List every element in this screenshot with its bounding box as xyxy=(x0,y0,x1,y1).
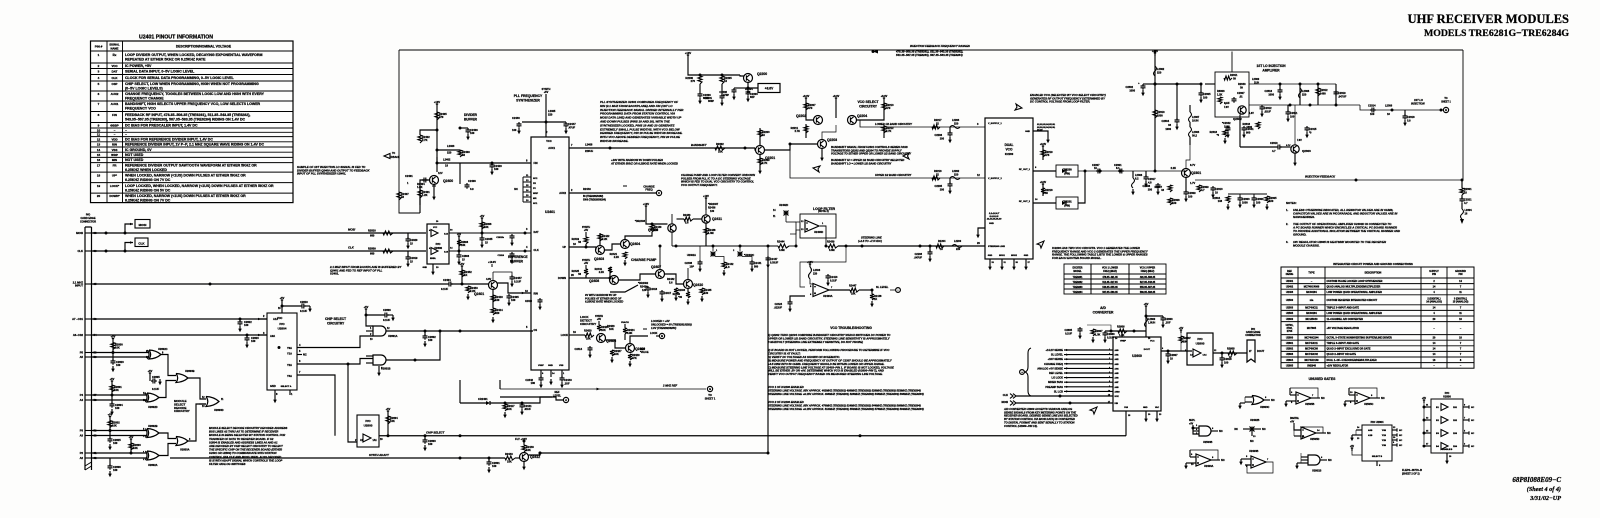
svg-text:MODULE CHASSIS.: MODULE CHASSIS. xyxy=(1293,244,1320,248)
svg-text:1000: 1000 xyxy=(1129,89,1135,93)
resistor R2810 xyxy=(383,231,393,235)
resistor R2213 xyxy=(882,103,886,110)
svg-text:MODELS TRE6281G−TRE6284G: MODELS TRE6281G−TRE6284G xyxy=(1424,28,1569,39)
transistor Q2302 xyxy=(1238,106,1246,114)
svg-text:DC BIAS FOR REFERENCE DIVIDER: DC BIAS FOR REFERENCE DIVIDER INPUT, 1.4… xyxy=(125,137,213,141)
svg-text:10K: 10K xyxy=(484,226,489,229)
svg-text:C: C xyxy=(658,191,660,195)
svg-text:QUAD 2–INPUT OR GATE: QUAD 2–INPUT OR GATE xyxy=(1327,353,1357,356)
svg-text:FR: FR xyxy=(533,183,536,185)
capacitor C2443 xyxy=(560,376,565,382)
svg-text:220: 220 xyxy=(954,173,959,177)
svg-text:U2800: U2800 xyxy=(1443,395,1451,399)
resistor R2433 xyxy=(677,218,685,220)
svg-text:VOLTAGE TO EITHER UPPER OR LOW: VOLTAGE TO EITHER UPPER OR LOWER 1/2 BAN… xyxy=(831,152,911,156)
node MOSI boxed label xyxy=(125,224,133,233)
svg-text:476: 476 xyxy=(1045,153,1050,157)
svg-text:U2802: U2802 xyxy=(1286,348,1294,351)
svg-text:UHF RECEIVER MODULES: UHF RECEIVER MODULES xyxy=(1408,12,1569,26)
svg-text:TO PROVIDE ADDITIONAL ISOLATIO: TO PROVIDE ADDITIONAL ISOLATION BETWEEN … xyxy=(1293,229,1400,233)
svg-text:10K: 10K xyxy=(718,150,723,154)
wire FIN into U2401 xyxy=(492,162,531,164)
svg-text:2.: 2. xyxy=(1286,222,1288,226)
svg-text:VDD: VDD xyxy=(111,137,117,141)
svg-text:100: 100 xyxy=(495,298,500,302)
svg-text:+5V: +5V xyxy=(148,369,153,373)
svg-text:DOWN*: DOWN* xyxy=(109,194,120,198)
svg-text:+8.6V: +8.6V xyxy=(833,95,840,98)
wire dout to connector xyxy=(1213,352,1247,354)
capacitor C2404 xyxy=(447,282,453,287)
svg-text:A7 –CS1: A7 –CS1 xyxy=(72,317,83,321)
resistor R2205 xyxy=(721,74,724,77)
transistor Q2201 xyxy=(756,146,765,155)
svg-text:NC2: NC2 xyxy=(533,178,538,180)
svg-text:Q2202: Q2202 xyxy=(796,114,806,118)
transistor Q2404 xyxy=(621,240,630,249)
ground Q2412 emitter xyxy=(523,462,525,465)
svg-text:NOT USED: NOT USED xyxy=(125,153,144,157)
svg-text:U2801B: U2801B xyxy=(381,367,391,371)
svg-text:DC BIAS FOR PRESCALER INPUT, 1: DC BIAS FOR PRESCALER INPUT, 1.4V DC xyxy=(125,123,198,127)
svg-text:3.9K: 3.9K xyxy=(627,331,633,335)
svg-text:CLK: CLK xyxy=(112,76,119,80)
wire Q2303 base chain xyxy=(1240,146,1276,148)
svg-text:(Sheet 4 of 4): (Sheet 4 of 4) xyxy=(1527,486,1561,493)
svg-text:220: 220 xyxy=(956,248,961,251)
svg-text:R2204: R2204 xyxy=(938,240,946,243)
svg-text:1.6: 1.6 xyxy=(726,266,730,269)
svg-text:AUX2: AUX2 xyxy=(559,191,566,195)
svg-text:U2500: U2500 xyxy=(1286,299,1294,302)
capacitor C2600 xyxy=(1146,315,1163,317)
svg-text:L2306: L2306 xyxy=(1135,173,1143,177)
svg-text:220: 220 xyxy=(1302,93,1307,97)
svg-text:(0–5V LOGIC LEVELS): (0–5V LOGIC LEVELS) xyxy=(125,86,163,90)
open arrow decor 3 xyxy=(1015,104,1022,110)
svg-text:U2505C: U2505C xyxy=(1364,402,1374,406)
svg-text:1.8K: 1.8K xyxy=(417,185,423,189)
svg-text:VCC: VCC xyxy=(1150,341,1155,343)
svg-text:16: 16 xyxy=(1108,395,1110,397)
svg-text:C2404: C2404 xyxy=(443,278,451,282)
svg-text:(PIN): (PIN) xyxy=(1064,205,1070,208)
svg-text:CHANGE FREQUENCY, TOGGLES BETW: CHANGE FREQUENCY, TOGGLES BETWEEN LOGIC … xyxy=(125,92,265,96)
svg-text:REFERENCE DIVIDER OUTPUT SAWT: REFERENCE DIVIDER OUTPUT SAWTOOTH WAVEFO… xyxy=(125,163,257,167)
svg-text:1000: 1000 xyxy=(1268,93,1274,97)
svg-text:A2: A2 xyxy=(80,456,84,460)
reference buffer extra xyxy=(538,298,543,304)
svg-text:1000: 1000 xyxy=(1165,127,1171,131)
svg-text:*DR2403: *DR2403 xyxy=(635,220,646,223)
svg-text:9: 9 xyxy=(1109,386,1110,388)
svg-text:CLOCK FOR SERIAL DATA PROGRAMM: CLOCK FOR SERIAL DATA PROGRAMMING, 0–5V … xyxy=(125,76,235,80)
svg-text:4.7: 4.7 xyxy=(1464,201,1468,205)
svg-text:NC: NC xyxy=(1271,398,1275,402)
svg-text:UPPER OR LOWER 1/2 BAND CIRCUI: UPPER OR LOWER 1/2 BAND CIRCUITRY. STEER… xyxy=(768,336,891,340)
transistor Q2405 xyxy=(597,334,606,343)
svg-text:.47UF: .47UF xyxy=(568,126,575,130)
wire Q2203 collector xyxy=(806,127,822,140)
wire Q2404 to Q2406 base xyxy=(625,232,652,240)
capacitor C2618 xyxy=(1221,353,1223,358)
svg-text:INTEGRATED CIRCUIT POWER AN: INTEGRATED CIRCUIT POWER AND GROUND CONN… xyxy=(1333,262,1413,266)
capacitor C2308 R2308 xyxy=(1156,183,1161,189)
capacitor C2820 xyxy=(407,233,409,239)
arrow down injection feedback xyxy=(1461,219,1463,220)
svg-text:1.6V: 1.6V xyxy=(1249,113,1254,115)
resistor R2202 xyxy=(715,146,725,150)
svg-text:VREF: VREF xyxy=(1120,341,1126,343)
svg-text:Q2408: Q2408 xyxy=(589,279,599,283)
svg-text:VCO 2 OF IC2200 ENABLED: VCO 2 OF IC2200 ENABLED xyxy=(768,400,804,404)
capacitor C2806b xyxy=(458,251,460,255)
svg-text:GND: GND xyxy=(548,365,553,367)
wire A6-CS2 rail xyxy=(92,334,268,336)
svg-text:NC: NC xyxy=(1471,446,1475,448)
svg-text:FIN: FIN xyxy=(112,113,117,117)
connector card edge body xyxy=(85,227,92,470)
svg-text:*R2607: *R2607 xyxy=(1183,338,1191,340)
svg-text:.047UF: .047UF xyxy=(1338,95,1347,99)
wire upper half band xyxy=(790,150,985,178)
IC U2800 data buffer box xyxy=(427,224,449,264)
svg-text:2.2K: 2.2K xyxy=(1171,166,1177,170)
svg-text:10K: 10K xyxy=(133,446,138,450)
svg-text:L2302: L2302 xyxy=(1157,67,1165,71)
opamp U2505C unused xyxy=(1355,392,1370,404)
capacitor C2413 xyxy=(546,121,566,123)
svg-text:+5V VOLTAGE REGULATOR: +5V VOLTAGE REGULATOR xyxy=(1327,327,1360,330)
svg-text:0.33UF: 0.33UF xyxy=(770,262,779,265)
svg-text:TRE6284: TRE6284 xyxy=(1073,291,1083,294)
svg-text:U2505: U2505 xyxy=(1286,312,1294,315)
svg-text:5.6M: 5.6M xyxy=(779,249,785,252)
svg-text:C) MEASURE STEERING LINE VOLT: C) MEASURE STEERING LINE VOLTAGE AT U240… xyxy=(768,365,894,369)
svg-text:GND: GND xyxy=(423,267,428,269)
svg-text:1.9V (TRE6282/6284): 1.9V (TRE6282/6284) xyxy=(651,326,676,330)
resistor R2207 xyxy=(804,103,808,110)
svg-text:VCC: VCC xyxy=(277,316,283,320)
svg-text:MOD2: MOD2 xyxy=(1011,255,1018,257)
svg-text:CLK: CLK xyxy=(348,246,355,250)
svg-text:STEERING LINE VOLTAGE +9.15V: STEERING LINE VOLTAGE +9.15V APPROX. 498… xyxy=(768,392,924,396)
gate U2803D or xyxy=(188,378,206,399)
svg-text:2.7K: 2.7K xyxy=(762,161,768,165)
opamp U2403A unused xyxy=(1196,454,1211,466)
svg-text:C2341: C2341 xyxy=(1246,127,1254,131)
svg-text:1K: 1K xyxy=(464,273,467,277)
svg-text:11: 11 xyxy=(97,133,101,137)
svg-text:SHEET 1: SHEET 1 xyxy=(1441,102,1451,104)
svg-text:C2303: C2303 xyxy=(1242,197,1250,201)
svg-text:0µUF: 0µUF xyxy=(1224,103,1230,105)
svg-text:L2308: L2308 xyxy=(1302,89,1310,93)
svg-text:680: 680 xyxy=(370,234,375,238)
svg-text:TO: TO xyxy=(1444,98,1447,100)
svg-text:0.1UF: 0.1UF xyxy=(383,318,390,322)
svg-text:AMPLIFIER: AMPLIFIER xyxy=(1262,69,1280,73)
svg-text:10K: 10K xyxy=(390,419,395,423)
svg-text:MC74HC244: MC74HC244 xyxy=(1304,336,1319,339)
svg-text:DESCRIPTION/NOMINAL VOLTAGE: DESCRIPTION/NOMINAL VOLTAGE xyxy=(176,45,232,49)
svg-text:C2660: C2660 xyxy=(1107,332,1115,336)
svg-text:567.35–580.35: 567.35–580.35 xyxy=(1102,292,1118,294)
svg-text:Y3B: Y3B xyxy=(1382,445,1387,447)
svg-text:STEERING LINE VOLTAGE .85V: STEERING LINE VOLTAGE .85V APPROX. 478MH… xyxy=(768,404,921,408)
svg-text:100: 100 xyxy=(113,441,118,445)
svg-text:160: 160 xyxy=(1172,201,1177,205)
svg-text:TRE6282: TRE6282 xyxy=(1073,282,1083,284)
svg-text:U2803C: U2803C xyxy=(1260,405,1270,409)
svg-text:DIGITAL: DIGITAL xyxy=(1290,417,1300,420)
wire feedback vertical left xyxy=(399,50,420,213)
svg-text:NC: NC xyxy=(1221,458,1225,462)
svg-text:R2444: R2444 xyxy=(777,241,785,244)
resistor R2439 xyxy=(820,226,826,246)
svg-text:VCC: VCC xyxy=(433,227,438,229)
arrow on top rail xyxy=(873,50,878,54)
diode CR2401 xyxy=(460,402,486,404)
svg-text:Q2203: Q2203 xyxy=(827,138,837,142)
resistor R2203 xyxy=(759,128,761,146)
svg-text:+5V: +5V xyxy=(364,305,369,309)
svg-text:MR: MR xyxy=(533,198,537,200)
svg-text:C2319: C2319 xyxy=(1338,91,1346,95)
svg-text:NOTES:: NOTES: xyxy=(1286,201,1297,205)
gate U2803B or xyxy=(161,355,176,376)
svg-text:220: 220 xyxy=(548,113,553,117)
svg-text:19: 19 xyxy=(97,184,101,188)
svg-text:LO LOCK: LO LOCK xyxy=(1052,376,1064,380)
svg-text:5.6: 5.6 xyxy=(669,282,673,285)
svg-text:THE SPECIFIC CHIP ON THE RECEI: THE SPECIFIC CHIP ON THE RECEIVER BOARD … xyxy=(209,448,282,452)
IC2200 dual VCO box xyxy=(985,118,1033,259)
svg-text:C2206: C2206 xyxy=(934,133,942,137)
svg-text:C2316: C2316 xyxy=(1264,89,1272,93)
svg-text:L2200: L2200 xyxy=(954,240,962,243)
svg-text:INJECTION FEEDBACK FREQUENCY R: INJECTION FEEDBACK FREQUENCY RANGES xyxy=(910,44,970,48)
svg-text:8.7V: 8.7V xyxy=(1190,163,1196,167)
transistor Q2406 xyxy=(668,224,676,232)
svg-text:17: 17 xyxy=(1108,402,1110,404)
transistor Q2400 xyxy=(430,176,439,185)
wire U2401 FR down xyxy=(499,380,501,389)
svg-text:100: 100 xyxy=(492,464,497,468)
svg-text:U2803: U2803 xyxy=(1286,353,1294,356)
svg-text:NC: NC xyxy=(1399,440,1403,442)
svg-text:CHIP SELECT, LOW WHEN PROGRAMM: CHIP SELECT, LOW WHEN PROGRAMMING, HIGH … xyxy=(125,82,259,86)
svg-text:U2805: U2805 xyxy=(1286,364,1294,367)
svg-text:LOW POWER QUAD OPERATIONAL AMP: LOW POWER QUAD OPERATIONAL AMPLIFIER xyxy=(1327,291,1383,294)
capacitor C2311 xyxy=(1286,110,1291,116)
svg-text:CUSTOM PHASE LOCKED LOOP SYNTH: CUSTOM PHASE LOCKED LOOP SYNTHESIZER xyxy=(1327,280,1383,283)
svg-text:NC1: NC1 xyxy=(533,203,538,205)
svg-text:GND: GND xyxy=(1025,131,1030,133)
svg-text:B: B xyxy=(661,334,663,338)
svg-text:A3: A3 xyxy=(80,434,84,438)
svg-text:SIGNAL: SIGNAL xyxy=(109,42,120,46)
svg-text:3.9: 3.9 xyxy=(470,187,474,191)
svg-text:DIN: DIN xyxy=(1115,403,1119,405)
connector pins xyxy=(85,232,92,234)
svg-text:820: 820 xyxy=(495,311,500,315)
wire Q2406 Q2411 collectors xyxy=(671,214,673,224)
svg-text:GROUND.: GROUND. xyxy=(1293,233,1307,237)
svg-text:C2447: C2447 xyxy=(568,122,576,126)
capacitor C2430 xyxy=(522,121,546,123)
svg-text:MC33184: MC33184 xyxy=(1306,312,1317,315)
capacitor C2801 xyxy=(488,458,490,462)
svg-text:2.2K: 2.2K xyxy=(602,238,607,241)
svg-text:C2307: C2307 xyxy=(1237,91,1245,95)
svg-text:ANALOG +5V SENSE: ANALOG +5V SENSE xyxy=(1037,366,1063,370)
svg-text:*VALUE: *VALUE xyxy=(640,351,649,354)
svg-text:P/O: P/O xyxy=(279,322,285,326)
svg-text:UP: UP xyxy=(562,245,566,249)
svg-text:P/O: P/O xyxy=(1197,337,1203,341)
svg-text:CLK: CLK xyxy=(1003,393,1008,397)
svg-text:LOOP DIVIDER OUTPUT, WHEN LOCK: LOOP DIVIDER OUTPUT, WHEN LOCKED, DECAYI… xyxy=(125,53,262,57)
IC P/O U2800 dout buffer xyxy=(1187,333,1213,365)
gate U2802B exclusive-or xyxy=(92,430,148,432)
svg-text:IC2200: IC2200 xyxy=(1005,152,1014,156)
svg-text:3/31/02−UP: 3/31/02−UP xyxy=(1529,495,1561,502)
capacitor C2205b xyxy=(949,178,951,184)
svg-text:.01UF: .01UF xyxy=(524,407,531,411)
svg-text:56 (TRE6281/6282): 56 (TRE6281/6282) xyxy=(583,196,603,198)
svg-text:100: 100 xyxy=(115,406,120,410)
svg-text:U2802A: U2802A xyxy=(148,463,158,467)
svg-text:MOSI: MOSI xyxy=(76,231,83,235)
svg-text:IS SYNTH ADAPT SIGNAL WHICH CO: IS SYNTH ADAPT SIGNAL WHICH CONTROLS THE… xyxy=(209,458,283,462)
svg-text:0.1UF: 0.1UF xyxy=(300,309,307,313)
svg-text:C2618: C2618 xyxy=(1224,357,1232,361)
svg-text:FLEPS–48779–B: FLEPS–48779–B xyxy=(1402,468,1422,472)
svg-text:2 MHZ REF: 2 MHZ REF xyxy=(662,384,678,388)
wire Q2203 emitter gnd xyxy=(821,149,823,156)
svg-text:DESCRIPTION: DESCRIPTION xyxy=(1365,272,1382,275)
transistor Q2409 xyxy=(626,344,635,353)
svg-text:160: 160 xyxy=(1269,199,1274,203)
svg-text:A: A xyxy=(565,398,567,402)
svg-text:NAME: NAME xyxy=(111,46,119,50)
svg-text:C2805: C2805 xyxy=(152,375,160,379)
svg-text:TYPE: TYPE xyxy=(1308,272,1315,275)
svg-text:2703: 2703 xyxy=(1287,330,1293,333)
capacitor C2825 xyxy=(109,431,111,440)
svg-text:+8.6V: +8.6V xyxy=(765,87,774,91)
svg-text:LOWER 1/2 BAND CIRCUITRY: LOWER 1/2 BAND CIRCUITRY xyxy=(875,122,912,126)
resistor R2608 xyxy=(1228,351,1237,355)
svg-text:C2430: C2430 xyxy=(512,116,520,120)
svg-text:C2317: C2317 xyxy=(1148,177,1156,181)
svg-text:+8.6V: +8.6V xyxy=(803,95,810,98)
transistor Q2204 xyxy=(848,116,857,125)
svg-text:R2443: R2443 xyxy=(505,452,513,456)
svg-text:REF LEVEL: REF LEVEL xyxy=(1049,371,1063,375)
svg-text:6.25KHZ RIDING ON 5V DC: 6.25KHZ RIDING ON 5V DC xyxy=(125,188,171,192)
svg-text:R2433: R2433 xyxy=(683,214,691,217)
svg-text:PLL FREQUENCY: PLL FREQUENCY xyxy=(514,94,543,98)
svg-text:5: 5 xyxy=(1109,367,1110,369)
svg-text:+6.5 DBM INTO 50 OHMS. FREQUEN: +6.5 DBM INTO 50 OHMS. FREQUENCY SHOULD … xyxy=(768,362,885,366)
svg-text:PIN: PIN xyxy=(1458,273,1462,276)
svg-text:(+2.5 TO +7.5 VDC): (+2.5 TO +7.5 VDC) xyxy=(858,239,882,243)
svg-text:UPPER 1/2 BAND CIRCUITRY: UPPER 1/2 BAND CIRCUITRY xyxy=(875,173,912,177)
bracket analog inputs xyxy=(1025,348,1031,396)
svg-text:C2311: C2311 xyxy=(1290,111,1298,115)
svg-text:1K: 1K xyxy=(874,298,877,301)
svg-text:C2401: C2401 xyxy=(405,174,413,178)
svg-text:Y3A: Y3A xyxy=(287,374,292,378)
svg-text:LOW POWER QUAD OPERATIONAL AMP: LOW POWER QUAD OPERATIONAL AMPLIFIER xyxy=(1327,312,1383,315)
svg-text:L2403: L2403 xyxy=(447,144,455,148)
resistor R2443 xyxy=(505,456,515,460)
svg-text:–: – xyxy=(125,133,127,137)
svg-text:DESIG: DESIG xyxy=(1286,273,1294,276)
svg-text:P5: P5 xyxy=(80,351,84,355)
gate U2801A and xyxy=(373,326,386,336)
U2401 NC pin block xyxy=(523,177,531,202)
svg-text:1ST LO INJECTION: 1ST LO INJECTION xyxy=(1256,64,1286,68)
svg-text:U2801A: U2801A xyxy=(388,334,398,338)
wire top bias rail xyxy=(1205,83,1215,85)
wire lower half band xyxy=(857,120,986,127)
svg-text:CONVERTER: CONVERTER xyxy=(1093,311,1114,315)
svg-text:VSS: VSS xyxy=(112,148,118,152)
wire into opamp xyxy=(796,222,800,246)
svg-text:INJECTION FEEDBACK: INJECTION FEEDBACK xyxy=(1305,175,1336,179)
svg-text:VCO SELECT: VCO SELECT xyxy=(857,100,878,104)
svg-text:C2306: C2306 xyxy=(1256,197,1264,201)
svg-text:A/D: A/D xyxy=(1100,306,1106,310)
wire A7-CS1 rail xyxy=(92,318,268,320)
svg-text:U2503B: U2503B xyxy=(1203,440,1213,444)
svg-text:2.7K: 2.7K xyxy=(886,129,892,133)
svg-text:U2401.: U2401. xyxy=(330,272,339,276)
svg-text:MC74HC11: MC74HC11 xyxy=(1305,342,1318,345)
capacitor C2429 xyxy=(491,162,494,165)
svg-text:+5V: +5V xyxy=(1179,327,1184,330)
svg-text:C2309: C2309 xyxy=(1188,191,1196,195)
svg-text:GND: GND xyxy=(270,384,276,388)
svg-text:R2301: R2301 xyxy=(1464,187,1472,191)
svg-text:U2800: U2800 xyxy=(1196,342,1205,346)
svg-text:FREQ (MHZ): FREQ (MHZ) xyxy=(1141,271,1155,273)
svg-text:VCO: VCO xyxy=(1006,148,1013,152)
svg-text:TRE6283: TRE6283 xyxy=(1073,287,1083,289)
wire Q2406 emitter down xyxy=(671,233,673,247)
svg-text:U2402D: U2402D xyxy=(779,204,788,207)
svg-text:Y0B: Y0B xyxy=(1382,430,1387,432)
svg-text:555.35–567.35: 555.35–567.35 xyxy=(1140,287,1156,289)
svg-text:U2804 IS ENABLED AND ADDRESS L: U2804 IS ENABLED AND ADDRESS LINES A0 AN… xyxy=(209,440,278,444)
wire top rail xyxy=(399,49,1463,51)
svg-text:SHPL: SHPL xyxy=(1189,420,1196,422)
svg-text:P/O U2804: P/O U2804 xyxy=(1371,420,1384,424)
open arrow decor ad xyxy=(1090,407,1097,414)
svg-text:R2809: R2809 xyxy=(368,247,376,251)
svg-text:10K: 10K xyxy=(112,424,117,428)
svg-text:CIRCUITRY: CIRCUITRY xyxy=(174,409,190,413)
svg-text:28,30,32,34,36,38,: 28,30,32,34,36,38, xyxy=(1036,126,1056,129)
svg-text:VERIFY VCO OUTPUT FREQUENCY BA: VERIFY VCO OUTPUT FREQUENCY BASED ON MEA… xyxy=(768,372,883,376)
wire Q2401 to RIN xyxy=(498,283,532,293)
svg-text:C2305: C2305 xyxy=(1203,92,1211,96)
transistor Q2407 xyxy=(656,270,665,279)
svg-text:100: 100 xyxy=(470,131,475,135)
